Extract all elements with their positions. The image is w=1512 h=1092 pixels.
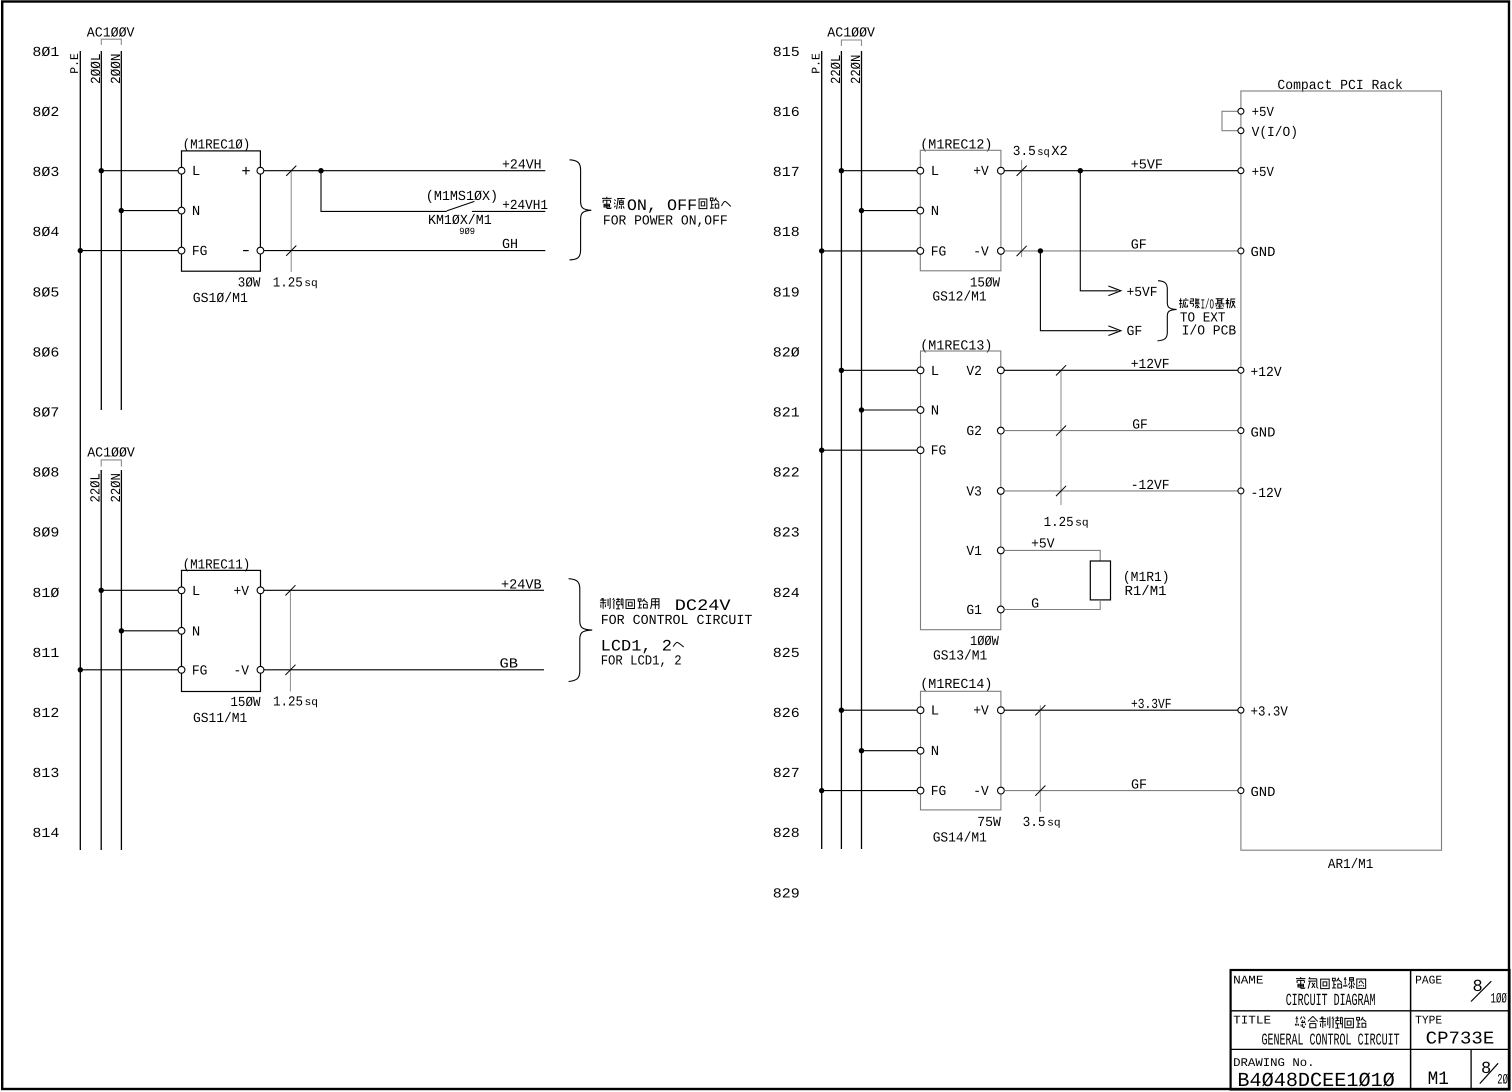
svg-text:+24VH1: +24VH1 [502, 198, 548, 214]
wire GF net (row 827) [1004, 777, 1237, 793]
wire branch to GF ext arrow [1040, 251, 1142, 340]
svg-text:V2: V2 [966, 364, 982, 380]
svg-text:+V: +V [973, 704, 989, 720]
rectifier U:M1REC14 GS14/M1 [917, 677, 1004, 847]
rectifier U:M1REC10 GS10/M1 [178, 137, 264, 307]
svg-text:GF: GF [1131, 237, 1147, 253]
svg-text:FG: FG [931, 444, 947, 460]
svg-text:8Ø6: 8Ø6 [32, 345, 59, 361]
svg-text:TITLE: TITLE [1233, 1014, 1271, 1028]
svg-text:DC24V: DC24V [675, 597, 731, 615]
title block [1231, 970, 1510, 1090]
wire L input REC12 [839, 168, 917, 173]
wire branch to switch [321, 171, 447, 212]
svg-text:8Ø8: 8Ø8 [32, 466, 59, 482]
svg-text:2ØØL: 2ØØL [89, 54, 105, 85]
svg-text:N: N [931, 744, 939, 760]
rectifier U:M1REC11 GS11/M1 [178, 558, 264, 727]
svg-text:-V: -V [973, 244, 989, 260]
svg-text:FOR LCD1, 2: FOR LCD1, 2 [601, 654, 682, 670]
title block 8/20 cell [1480, 1060, 1508, 1089]
wire P.E bus (right) [809, 51, 823, 849]
wire FG input REC13 [819, 448, 917, 453]
svg-text:GS13/M1: GS13/M1 [933, 649, 987, 665]
svg-text:FOR POWER ON,OFF: FOR POWER ON,OFF [603, 213, 728, 229]
svg-text:L: L [931, 364, 939, 380]
svg-text:FG: FG [931, 784, 947, 800]
svg-text:81Ø: 81Ø [32, 586, 59, 602]
svg-text:+12V: +12V [1251, 365, 1283, 381]
net label AC100V (top-left) [87, 25, 135, 45]
svg-text:+3.3VF: +3.3VF [1131, 697, 1172, 713]
svg-text:814: 814 [32, 826, 59, 842]
svg-text:22ØL: 22ØL [829, 55, 845, 84]
svg-text:828: 828 [773, 826, 800, 842]
svg-text:GENERAL CONTROL CIRCUIT: GENERAL CONTROL CIRCUIT [1262, 1031, 1400, 1050]
svg-text:827: 827 [773, 766, 800, 782]
svg-text:22ØN: 22ØN [109, 473, 125, 502]
rack pin GND (818) [1238, 245, 1276, 261]
svg-text:G1: G1 [966, 603, 982, 619]
svg-text:829: 829 [773, 886, 800, 902]
annotation brace (control circuit DC24V) [569, 579, 593, 682]
svg-text:+5VF: +5VF [1127, 285, 1158, 301]
svg-text:812: 812 [32, 706, 59, 722]
svg-text:811: 811 [32, 646, 59, 662]
svg-text:75W: 75W [977, 815, 1001, 831]
svg-text:(M1REC11): (M1REC11) [183, 558, 251, 574]
switch M1MS10X KM10X/M1 [426, 189, 498, 237]
title block PAGE cell 8/100 [1415, 974, 1507, 1008]
rack pin V(I/O) [1238, 125, 1298, 141]
svg-text:FOR CONTROL CIRCUIT: FOR CONTROL CIRCUIT [601, 613, 753, 629]
wire +24VB net [264, 577, 544, 593]
svg-text:N: N [931, 404, 939, 420]
svg-text:FG: FG [931, 244, 947, 260]
wire FG input REC12 [819, 248, 917, 253]
rack pin GND (827) [1238, 785, 1276, 801]
svg-text:G: G [1031, 597, 1039, 613]
wire N input REC11 [119, 628, 178, 633]
svg-text:8Ø2: 8Ø2 [32, 105, 59, 121]
svg-text:816: 816 [773, 105, 800, 121]
svg-text:sq: sq [304, 278, 318, 290]
svg-text:+24VB: +24VB [501, 577, 542, 593]
svg-text:8Ø5: 8Ø5 [32, 285, 59, 301]
svg-text:GS11/M1: GS11/M1 [193, 711, 247, 727]
svg-text:817: 817 [773, 165, 800, 181]
svg-text:I/O PCB: I/O PCB [1182, 324, 1237, 340]
wire L input REC14 [839, 708, 917, 713]
title block M1 cell [1428, 1068, 1449, 1090]
svg-text:15ØW: 15ØW [230, 695, 261, 711]
wire N input REC10 [119, 208, 179, 213]
wire N input REC12 [859, 208, 917, 213]
resistor R1/M1 (M1R1) [1090, 561, 1169, 600]
svg-text:823: 823 [773, 526, 800, 542]
title block NAME cell 電気回路線図 CIRCUIT DIAGRAM [1233, 974, 1375, 1012]
rack pin -12V [1238, 486, 1282, 502]
svg-text:(M1REC13): (M1REC13) [920, 338, 992, 354]
svg-text:GF: GF [1131, 777, 1147, 793]
svg-text:sq: sq [1037, 147, 1050, 159]
svg-text:1.25: 1.25 [273, 695, 303, 711]
svg-text:822: 822 [773, 466, 800, 482]
svg-text:9Ø9: 9Ø9 [459, 226, 475, 237]
svg-text:V1: V1 [966, 544, 982, 560]
svg-text:GS14/M1: GS14/M1 [933, 831, 987, 847]
svg-text:GF: GF [1127, 324, 1143, 340]
svg-text:2Ø: 2Ø [1497, 1073, 1508, 1089]
svg-text:GND: GND [1251, 785, 1276, 801]
svg-text:R1/M1: R1/M1 [1125, 584, 1167, 600]
wire 220L bus (right) [829, 51, 845, 849]
title block TYPE cell CP733E [1415, 1014, 1494, 1050]
svg-text:-12VF: -12VF [1131, 478, 1170, 494]
svg-text:V(I/O): V(I/O) [1252, 125, 1298, 141]
svg-text:824: 824 [773, 586, 800, 602]
svg-text:-V: -V [973, 784, 989, 800]
svg-text:FG: FG [192, 244, 208, 260]
rack pin +12V [1238, 365, 1282, 381]
svg-text:GF: GF [1132, 417, 1148, 433]
svg-text:8Ø3: 8Ø3 [32, 165, 59, 181]
wire 220L bus (mid-left) [89, 470, 105, 850]
wire +12VF net [1004, 357, 1237, 373]
value label 3.5sqX2 [1013, 144, 1068, 257]
svg-text:sq: sq [305, 697, 319, 709]
wire GB net [264, 657, 544, 673]
svg-text:819: 819 [773, 285, 800, 301]
title block TITLE cell 総合制御回路 GENERAL CONTROL CIRCUIT [1233, 1014, 1400, 1050]
svg-text:-V: -V [234, 663, 250, 679]
svg-text:X2: X2 [1051, 144, 1068, 160]
node line-numbers 815-829 [773, 45, 800, 902]
svg-text:P.E: P.E [809, 53, 823, 74]
wire branch to +5VF ext arrow [1080, 171, 1157, 301]
svg-text:(M1MS1ØX): (M1MS1ØX) [426, 189, 498, 205]
svg-text:V3: V3 [966, 484, 982, 500]
svg-text:826: 826 [773, 706, 800, 722]
annotation text 電源ON,OFF回路へ / FOR POWER ON,OFF [602, 197, 731, 230]
svg-text:L: L [192, 584, 200, 600]
svg-text:AC1ØØV: AC1ØØV [827, 25, 875, 41]
svg-text:DRAWING No.: DRAWING No. [1233, 1056, 1315, 1070]
svg-text:-12V: -12V [1251, 486, 1283, 502]
svg-text:813: 813 [32, 766, 59, 782]
wire N input REC13 [859, 407, 917, 412]
svg-text:1.25: 1.25 [273, 275, 303, 291]
svg-text:LCD1, 2: LCD1, 2 [601, 637, 672, 655]
svg-text:GND: GND [1251, 426, 1276, 442]
svg-text:815: 815 [773, 45, 800, 61]
svg-text:sq: sq [1075, 518, 1089, 530]
wire G1 G loop [1004, 597, 1100, 613]
rack pin +5V (817) [1238, 165, 1275, 181]
net label AC100V (top-right) [827, 25, 875, 46]
svg-text:L: L [931, 704, 939, 720]
annotation text 制御回路用 DC24V / FOR CONTROL CIRCUIT / LCD1,2へ / FOR LCD1,2 [600, 597, 752, 670]
annotation brace (ext I/O) [1158, 281, 1177, 341]
svg-text:G2: G2 [966, 424, 982, 440]
svg-text:8Ø1: 8Ø1 [32, 45, 59, 61]
wire FG input REC10 [78, 248, 179, 253]
value label 1.25sq (REC10 output) [273, 166, 318, 292]
wire FG input REC14 [819, 788, 917, 793]
wire 220N bus (right) [849, 51, 865, 849]
svg-text:2ØØN: 2ØØN [109, 54, 125, 85]
svg-text:3.5: 3.5 [1023, 815, 1046, 831]
svg-text:sq: sq [1047, 818, 1061, 830]
svg-text:+12VF: +12VF [1131, 357, 1170, 373]
svg-text:+3.3V: +3.3V [1251, 705, 1289, 721]
wire L input REC11 [99, 588, 179, 593]
svg-text:818: 818 [773, 225, 800, 241]
svg-text:+5V: +5V [1031, 536, 1055, 552]
svg-text:8Ø7: 8Ø7 [32, 406, 59, 422]
wire +24VH net [264, 157, 546, 173]
rack pin +3.3V [1238, 705, 1289, 721]
svg-text:P.E: P.E [68, 53, 82, 74]
svg-text:22ØN: 22ØN [849, 55, 865, 84]
svg-text:N: N [931, 204, 939, 220]
svg-text:B4Ø48DCEE1Ø1Ø: B4Ø48DCEE1Ø1Ø [1237, 1070, 1394, 1092]
value label 1.25sq (REC11 output) [273, 585, 318, 710]
svg-text:(M1REC12): (M1REC12) [920, 137, 992, 153]
svg-text:+5VF: +5VF [1131, 157, 1163, 173]
svg-text:825: 825 [773, 646, 800, 662]
rectifier U:M1REC13 GS13/M1 [917, 338, 1004, 664]
svg-text:(M1REC14): (M1REC14) [920, 677, 992, 693]
wire GH net [264, 237, 546, 253]
wire +24VH1 net [472, 198, 548, 214]
wire L input REC10 [99, 168, 179, 173]
svg-text:1ØØ: 1ØØ [1491, 992, 1508, 1008]
wire 200N bus (top-left) [109, 51, 125, 410]
annotation brace (power on/off) [570, 160, 592, 260]
svg-text:AR1/M1: AR1/M1 [1328, 857, 1373, 873]
net label AC100V (mid-left) [87, 446, 135, 467]
svg-text:L: L [931, 164, 939, 180]
title block DRAWING No. cell B4048DCEE1010 [1233, 1056, 1395, 1092]
wire -12VF net [1004, 478, 1237, 494]
wire 220N bus (mid-left) [109, 470, 125, 850]
svg-text:PAGE: PAGE [1415, 974, 1442, 988]
wire 200L bus (top-left) [89, 51, 105, 410]
svg-text:GB: GB [500, 657, 519, 673]
wire +3.3VF net [1004, 697, 1237, 713]
value label 3.5sq (REC14 output) [1023, 705, 1061, 831]
svg-text:82Ø: 82Ø [773, 345, 800, 361]
svg-text:CIRCUIT DIAGRAM: CIRCUIT DIAGRAM [1286, 992, 1376, 1011]
rack AR1/M1 Compact PCI Rack [1241, 78, 1442, 873]
value label 1.25sq (REC13 output) [1044, 365, 1089, 531]
svg-text:GH: GH [502, 237, 518, 253]
jumper +5V to V(I/O) [1222, 111, 1238, 130]
svg-text:8Ø9: 8Ø9 [32, 526, 59, 542]
svg-text:1.25: 1.25 [1044, 515, 1074, 531]
wire V1 +5V loop [1004, 536, 1100, 561]
svg-text:GS12/M1: GS12/M1 [932, 290, 986, 306]
rack pin +5V (816) [1238, 105, 1275, 121]
annotation text 拡張I/O基板 / TO EXT / I/O PCB [1179, 297, 1236, 339]
svg-text:+V: +V [973, 164, 989, 180]
wire P.E bus (left) [68, 51, 82, 850]
svg-text:AC1ØØV: AC1ØØV [87, 446, 135, 462]
wire GF net (row 818) [1004, 237, 1237, 253]
svg-text:+24VH: +24VH [502, 157, 542, 173]
rectifier U:M1REC12 GS12/M1 [917, 137, 1004, 305]
svg-text:FG: FG [192, 663, 208, 679]
svg-text:8Ø4: 8Ø4 [32, 225, 59, 241]
wire N input REC14 [859, 748, 917, 753]
wire L input REC13 [839, 368, 917, 373]
svg-text:+5V: +5V [1252, 105, 1275, 121]
node line-numbers 801-814 [32, 45, 59, 842]
wire GF net (row 821) [1004, 417, 1237, 433]
svg-text:22ØL: 22ØL [89, 473, 105, 502]
wire +5VF net [1004, 157, 1237, 173]
svg-text:3.5: 3.5 [1013, 144, 1036, 160]
svg-text:N: N [192, 204, 200, 220]
svg-text:+5V: +5V [1252, 165, 1275, 181]
svg-text:TYPE: TYPE [1415, 1014, 1442, 1028]
svg-text:N: N [192, 624, 200, 640]
svg-text:L: L [192, 164, 200, 180]
svg-text:NAME: NAME [1233, 974, 1263, 988]
rack pin GND (821) [1238, 426, 1276, 442]
svg-text:+V: +V [234, 584, 250, 600]
svg-text:GS1Ø/M1: GS1Ø/M1 [193, 291, 248, 307]
svg-text:3ØW: 3ØW [238, 275, 261, 291]
wire FG input REC11 [78, 667, 179, 672]
svg-text:M1: M1 [1428, 1068, 1449, 1090]
svg-text:GND: GND [1251, 245, 1276, 261]
svg-text:821: 821 [773, 406, 800, 422]
svg-text:CP733E: CP733E [1426, 1030, 1495, 1050]
